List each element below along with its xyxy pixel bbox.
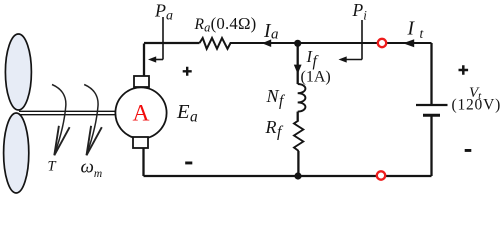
svg-text:Pa: Pa	[154, 1, 173, 24]
svg-text:Pi: Pi	[352, 0, 368, 23]
svg-text:ωm: ωm	[81, 157, 103, 181]
svg-text:(120V): (120V)	[452, 97, 502, 114]
svg-text:Ea: Ea	[176, 101, 198, 126]
svg-text:Nf: Nf	[266, 86, 287, 109]
svg-text:T: T	[48, 159, 57, 175]
svg-text:Rf: Rf	[265, 117, 285, 140]
svg-text:Ra(0.4Ω): Ra(0.4Ω)	[194, 14, 257, 35]
svg-text:(1A): (1A)	[301, 69, 331, 86]
svg-text:If: If	[306, 47, 320, 70]
svg-text:Ia: Ia	[263, 21, 279, 42]
svg-text:A: A	[133, 100, 150, 126]
svg-text:It: It	[407, 19, 425, 42]
